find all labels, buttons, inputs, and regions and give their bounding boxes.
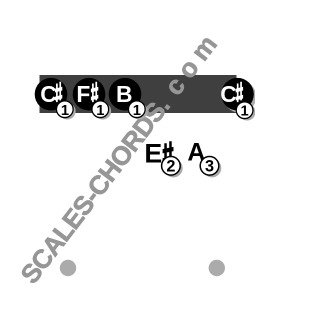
svg-text:C: C xyxy=(220,81,236,107)
svg-text:1: 1 xyxy=(133,103,141,119)
svg-text:1: 1 xyxy=(241,104,249,120)
svg-text:3: 3 xyxy=(205,158,214,176)
svg-text:B: B xyxy=(116,81,132,107)
svg-text:2: 2 xyxy=(166,158,175,176)
svg-text:1: 1 xyxy=(61,103,69,119)
svg-text:E: E xyxy=(144,139,162,169)
svg-text:1: 1 xyxy=(96,103,104,119)
svg-text:F: F xyxy=(76,81,90,107)
svg-text:C: C xyxy=(40,81,56,107)
